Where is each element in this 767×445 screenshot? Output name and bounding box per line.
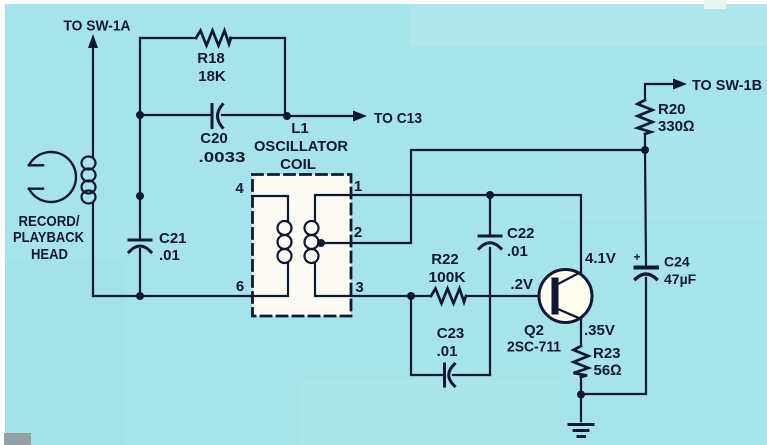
oscillator coil box L1 <box>253 175 352 317</box>
svg-text:OSCILLATOR: OSCILLATOR <box>254 138 348 155</box>
svg-text:56Ω: 56Ω <box>594 362 622 379</box>
wire head line lower <box>92 203 94 296</box>
wire arrow to C13 <box>287 115 356 117</box>
node junction pin4 row <box>136 192 144 200</box>
capacitor C24 <box>636 268 658 280</box>
capacitor C21 <box>129 240 151 252</box>
head coil winding <box>82 157 96 204</box>
resistor R18 <box>196 31 231 46</box>
svg-text:COIL: COIL <box>280 156 316 173</box>
wire bottom-left horizontal to pin 6 <box>93 295 252 297</box>
capacitor C20 <box>212 105 223 128</box>
resistor R22 <box>431 289 466 304</box>
svg-text:.35V: .35V <box>584 322 615 339</box>
transistor Q2 <box>539 270 592 323</box>
svg-text:R22: R22 <box>431 251 459 268</box>
arrow to SW-1A <box>88 34 98 48</box>
svg-text:TO SW-1B: TO SW-1B <box>692 77 762 94</box>
wire C24 top <box>645 150 646 266</box>
svg-text:L1: L1 <box>291 120 309 137</box>
L1 secondary winding <box>305 195 352 296</box>
svg-text:1: 1 <box>354 178 362 195</box>
wire pin 2 tap to supply rail <box>321 150 645 243</box>
svg-text:6: 6 <box>236 278 244 295</box>
svg-text:47µF: 47µF <box>664 271 697 287</box>
svg-text:HEAD: HEAD <box>31 246 68 263</box>
wire C20 row <box>140 114 287 116</box>
node junction C22 top <box>486 191 494 199</box>
arrow to C13 <box>353 111 367 122</box>
node junction pin6 row <box>136 292 144 300</box>
wire R18 right drop <box>284 38 286 115</box>
svg-text:2SC-711: 2SC-711 <box>507 339 561 356</box>
node L1 tap <box>317 239 325 247</box>
node junction supply rail <box>641 146 649 154</box>
svg-text:TO C13: TO C13 <box>374 110 422 127</box>
resistor R23 <box>574 346 589 377</box>
wire emitter drop <box>580 319 582 346</box>
svg-text:100K: 100K <box>429 269 466 286</box>
svg-text:4: 4 <box>235 180 244 197</box>
wire pin 1 to collector node <box>351 195 581 272</box>
svg-text:C24: C24 <box>664 254 690 270</box>
capacitor C23 <box>445 364 455 386</box>
svg-text:330Ω: 330Ω <box>658 118 695 135</box>
svg-text:.01: .01 <box>159 247 180 264</box>
svg-text:R20: R20 <box>658 101 686 118</box>
svg-text:4.1V: 4.1V <box>585 250 616 267</box>
node junction C20 left <box>136 111 144 119</box>
svg-text:PLAYBACK: PLAYBACK <box>13 229 84 246</box>
svg-text:+: + <box>633 250 640 264</box>
svg-text:R18: R18 <box>197 50 225 67</box>
wire head line to SW-1A <box>92 46 94 157</box>
wire left vertical bus <box>139 38 141 239</box>
node junction base row <box>407 292 415 300</box>
ground <box>569 425 593 437</box>
svg-text:.01: .01 <box>437 343 458 360</box>
svg-text:C21: C21 <box>159 230 187 247</box>
wire ground stem <box>580 395 582 421</box>
svg-text:2: 2 <box>354 224 362 241</box>
arrow to SW-1B <box>673 79 687 90</box>
svg-text:C23: C23 <box>437 325 465 342</box>
wire C24 bottom loop <box>581 278 646 394</box>
svg-text:.0033: .0033 <box>199 149 246 166</box>
svg-text:.2V: .2V <box>510 276 533 293</box>
svg-text:.01: .01 <box>507 243 528 260</box>
wire C22-C23 vertical branch <box>489 195 491 375</box>
svg-text:18K: 18K <box>198 68 226 85</box>
svg-text:3: 3 <box>355 279 363 296</box>
wire pin 3 to base row <box>351 295 551 297</box>
node junction ground <box>577 391 585 399</box>
wire top right rail to SW-1B <box>645 84 676 150</box>
wire C23 bottom loop <box>411 296 490 375</box>
wire R18 top loop <box>140 37 285 39</box>
record/playback head <box>29 152 76 202</box>
svg-text:C22: C22 <box>507 225 535 242</box>
svg-text:TO SW-1A: TO SW-1A <box>64 18 131 35</box>
resistor R20 <box>638 100 653 134</box>
svg-text:Q2: Q2 <box>524 322 544 339</box>
wire left vertical bus lower <box>139 249 141 296</box>
capacitor C22 <box>479 236 501 249</box>
wire R23 to ground node <box>580 377 582 395</box>
svg-text:C20: C20 <box>200 130 228 147</box>
svg-text:RECORD/: RECORD/ <box>19 213 81 230</box>
L1 primary winding <box>252 196 292 296</box>
svg-text:R23: R23 <box>593 345 621 362</box>
node junction C20 right / TO C13 <box>283 112 291 120</box>
